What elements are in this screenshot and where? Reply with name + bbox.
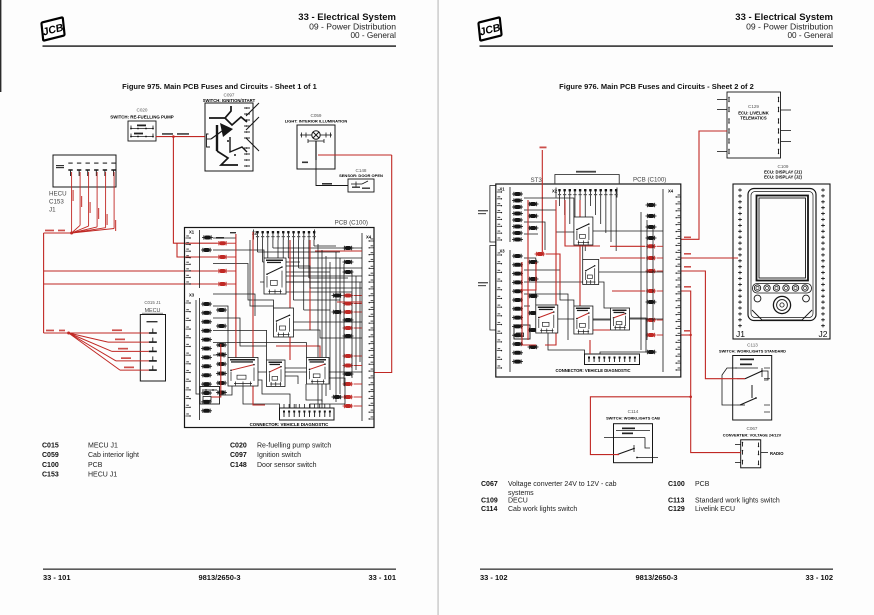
connector C129 ECU livelink telematics (727, 92, 781, 158)
svg-text:C114: C114 (481, 506, 497, 513)
fuse bank X1 sheet2 (512, 192, 539, 242)
svg-text:C067: C067 (747, 426, 758, 431)
wire bundle interior sheet2 (524, 198, 663, 354)
wire PCB to C113 (red) (681, 271, 745, 379)
wire bundle extra interior left page (196, 240, 362, 408)
relay K10 (611, 308, 630, 330)
svg-text:SENSOR: DOOR OPEN: SENSOR: DOOR OPEN (339, 173, 383, 178)
svg-text:PCB (C100): PCB (C100) (335, 220, 368, 227)
relay K8 (536, 305, 558, 333)
svg-text:33 - 102: 33 - 102 (480, 573, 508, 582)
svg-text:C059: C059 (311, 113, 322, 118)
svg-text:C059: C059 (42, 452, 59, 459)
svg-text:CONVERTER: VOLTAGE 24/12V: CONVERTER: VOLTAGE 24/12V (723, 433, 782, 438)
wire fan to MECU pins (LB 305 series) (69, 329, 149, 370)
svg-text:9813/2650-3: 9813/2650-3 (635, 573, 677, 582)
svg-text:C100: C100 (42, 462, 59, 469)
header rule (480, 45, 834, 47)
footer rule (480, 569, 833, 570)
relay K5 spare (307, 358, 330, 385)
svg-text:C020: C020 (137, 108, 148, 113)
svg-text:PCB: PCB (88, 462, 103, 469)
node MECU supply junction (67, 332, 70, 335)
svg-text:09 - Power Distribution: 09 - Power Distribution (746, 22, 833, 32)
wire bus feed to PCB X1 row (y 271) (44, 270, 218, 272)
relay K6 (574, 217, 593, 245)
fuses F main (red) X1 rows (217, 241, 236, 286)
label 60-1 W (216, 237, 224, 239)
svg-text:PCB (C100): PCB (C100) (633, 177, 666, 184)
wire bundle X2 drops (258, 240, 315, 310)
svg-text:X1: X1 (189, 230, 195, 235)
svg-text:C109: C109 (481, 498, 498, 505)
svg-text:Figure 976. Main PCB Fuses and: Figure 976. Main PCB Fuses and Circuits … (559, 82, 754, 91)
svg-text:Cab interior light: Cab interior light (88, 452, 139, 459)
bracket C100-J4 above X2 (555, 175, 619, 184)
wire ignition feed down to PCB fuse row (173, 137, 217, 244)
relay K3 revolving lamp (228, 358, 258, 387)
wire red feed to diode module (212, 344, 221, 397)
svg-text:C114: C114 (628, 409, 639, 414)
wire left bus to HECU junction, label LB 301B 300B (44, 232, 72, 234)
pin column J1 (738, 188, 742, 327)
bracket C100-J3 left (490, 246, 496, 331)
fuse bank X3 (201, 302, 227, 413)
wire bundle X2 drops sheet2 (560, 198, 617, 251)
svg-text:Standard work lights switch: Standard work lights switch (695, 498, 780, 505)
svg-text:RADIO: RADIO (770, 451, 784, 456)
svg-text:09 - Power Distribution: 09 - Power Distribution (309, 22, 396, 32)
svg-text:C015 J1: C015 J1 (144, 300, 161, 305)
svg-text:Ignition switch: Ignition switch (257, 452, 301, 459)
wire red interior sheet2 (520, 200, 645, 354)
diode module bottom left (200, 387, 220, 405)
svg-text:9813/2650-3: 9813/2650-3 (198, 573, 240, 582)
svg-text:Voltage converter 24V to 12V -: Voltage converter 24V to 12V - cab (508, 481, 617, 488)
fuse ST3 (red) (535, 252, 546, 256)
svg-text:33 - 101: 33 - 101 (43, 573, 71, 582)
wire diagnostic risers (284, 404, 330, 408)
svg-text:C109: C109 (778, 164, 789, 169)
wire bus feed to PCB X1 row (y 284) (44, 283, 218, 285)
svg-text:C129: C129 (748, 104, 759, 109)
wire bracket C113 left (722, 368, 737, 405)
svg-text:C129: C129 (668, 506, 685, 513)
svg-text:C020: C020 (230, 443, 247, 450)
wire C059 to right-side vertical bus (318, 154, 392, 156)
svg-text:ECU: DISPLAY (J2): ECU: DISPLAY (J2) (764, 175, 802, 180)
wire bundle interior horizontals (258, 246, 363, 310)
svg-text:C015: C015 (42, 443, 59, 450)
wire red interior verticals (236, 232, 362, 405)
svg-text:ST3: ST3 (531, 177, 543, 184)
svg-text:C113: C113 (668, 498, 684, 505)
svg-text:Door sensor switch: Door sensor switch (257, 462, 317, 469)
svg-text:33 - 101: 33 - 101 (368, 573, 396, 582)
svg-text:33 - 102: 33 - 102 (805, 573, 833, 582)
svg-text:X1: X1 (500, 187, 506, 192)
svg-text:C100: C100 (668, 481, 685, 488)
svg-text:X3: X3 (500, 249, 506, 254)
fuse bank X4 sheet2 (black) (646, 203, 657, 354)
wire ST3 ignition feed (S90) (540, 147, 547, 149)
relay K9 (574, 306, 593, 334)
wire PCB exit y335 (red) (681, 334, 691, 336)
svg-text:Cab work lights switch: Cab work lights switch (508, 506, 577, 513)
svg-text:SWITCH: WORKLIGHTS CAB: SWITCH: WORKLIGHTS CAB (606, 415, 660, 420)
svg-text:DECU: DECU (508, 498, 528, 505)
fuse bank X4 (red) (343, 293, 363, 408)
connector C153 HECU J1 block (53, 155, 116, 187)
fuse bank X3 sheet2 (512, 254, 539, 364)
svg-text:LIGHT: INTERIOR ILLUMINATION: LIGHT: INTERIOR ILLUMINATION (285, 119, 348, 124)
wire bundle relay interconnects (213, 234, 362, 408)
svg-text:CONNECTOR: VEHICLE DIAGNOSTIC: CONNECTOR: VEHICLE DIAGNOSTIC (555, 368, 630, 373)
svg-text:C153: C153 (49, 199, 64, 206)
page divider shadow (437, 0, 439, 615)
svg-text:systems: systems (508, 490, 534, 497)
wire PCB to C109 J1 (red) (681, 257, 738, 259)
fuse bank X4 (black) (332, 246, 354, 399)
scan edge artifact left (0, 0, 1, 92)
JCB logo (476, 17, 504, 40)
svg-text:J1: J1 (736, 329, 745, 339)
svg-text:SWITCH: IGNITION/START: SWITCH: IGNITION/START (203, 98, 256, 103)
svg-text:SWITCH: RE-FUELLING PUMP: SWITCH: RE-FUELLING PUMP (110, 115, 173, 120)
wire C059 lamp to C148 door sensor (316, 160, 348, 186)
wire left bus to MECU junction (LB 304A 30B) (44, 332, 69, 334)
fuse bank X4 sheet2 (red) (646, 244, 664, 337)
bracket C100-J1 left (490, 186, 496, 243)
svg-text:HECU J1: HECU J1 (88, 472, 117, 479)
wire right vertical bus down to PCB X4 side (374, 155, 392, 373)
wire PCB to C114 (red) (590, 397, 690, 455)
svg-text:C067: C067 (481, 481, 498, 488)
svg-text:TELEMATICS: TELEMATICS (740, 116, 767, 121)
pin column J2 (821, 188, 825, 327)
relay K7 (583, 260, 599, 285)
svg-text:X3: X3 (189, 293, 195, 298)
svg-text:C097: C097 (230, 452, 247, 459)
header rule (43, 45, 397, 47)
node ignition feed tee (172, 135, 175, 138)
wire left bus vertical from y284 to MECU row (43, 284, 45, 333)
svg-text:J1: J1 (49, 207, 56, 214)
svg-text:J2: J2 (819, 329, 828, 339)
display unit drawing (748, 189, 816, 321)
diode module sheet2 (514, 325, 530, 339)
connector vehicle diagnostic sheet2 (585, 354, 640, 365)
connector vehicle diagnostic (280, 408, 335, 420)
svg-text:Livelink ECU: Livelink ECU (695, 506, 735, 513)
node HECU supply junction (70, 232, 73, 235)
wire PCB to C129 (red) (681, 131, 727, 239)
svg-text:Figure 975. Main PCB Fuses and: Figure 975. Main PCB Fuses and Circuits … (122, 82, 317, 91)
svg-text:HECU: HECU (49, 191, 67, 198)
relay K4 work lamp (267, 360, 286, 387)
svg-text:C148: C148 (230, 462, 247, 469)
svg-text:C113: C113 (747, 343, 758, 348)
JCB logo (39, 17, 67, 40)
wire left vertical bus (43, 233, 45, 284)
svg-text:MECU J1: MECU J1 (88, 443, 118, 450)
svg-text:00 - General: 00 - General (350, 31, 396, 40)
svg-text:C097: C097 (224, 93, 235, 98)
svg-text:PCB: PCB (695, 481, 710, 488)
wire feed row 257 (177, 243, 218, 257)
relay K1 (264, 258, 286, 294)
labels red net names right edge (684, 237, 691, 239)
footer rule (43, 569, 396, 570)
svg-text:SWITCH: WORKLIGHTS STANDARD: SWITCH: WORKLIGHTS STANDARD (719, 349, 786, 354)
wire C020 to C097 (LB 300YB / 4.0 300YA) (156, 136, 205, 138)
relay K2 (274, 308, 294, 337)
wire fan to HECU pins (LB 301 series) (72, 172, 117, 233)
wire PCB to C067 (red) (681, 291, 741, 453)
svg-text:00 - General: 00 - General (787, 31, 833, 40)
svg-text:CONNECTOR: VEHICLE DIAGNOSTIC: CONNECTOR: VEHICLE DIAGNOSTIC (250, 422, 330, 427)
svg-text:Re-fuelling pump switch: Re-fuelling pump switch (257, 443, 331, 450)
fuse bank X1 (201, 235, 213, 252)
wire bundle verticals to X4 (336, 252, 360, 402)
svg-text:X2: X2 (552, 189, 558, 194)
svg-text:C153: C153 (42, 472, 59, 479)
svg-text:X4: X4 (668, 189, 674, 194)
